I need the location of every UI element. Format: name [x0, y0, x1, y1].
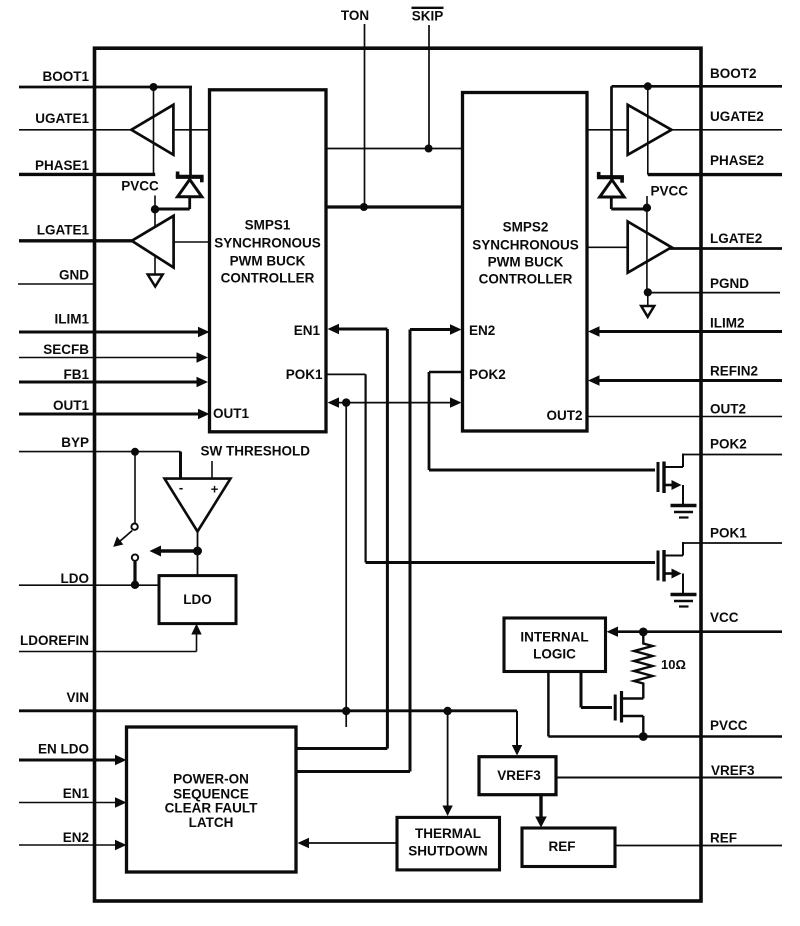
svg-text:REFIN2: REFIN2	[710, 364, 758, 379]
svg-text:POWER-ON: POWER-ON	[173, 772, 249, 787]
wire LGATE1 output	[19, 239, 133, 242]
switch SW1 BYP/LDO selector	[113, 455, 138, 585]
svg-text:PWM BUCK: PWM BUCK	[488, 255, 564, 270]
wire OUT2 pin	[588, 416, 782, 418]
svg-text:OUT1: OUT1	[213, 406, 249, 421]
wire VREF3 pin	[556, 777, 782, 779]
diode D1 bootstrap schottky	[155, 172, 204, 210]
svg-text:POK1: POK1	[710, 526, 747, 541]
svg-text:LOGIC: LOGIC	[533, 646, 576, 661]
wire VIN rail	[19, 709, 517, 712]
svg-text:UGATE2: UGATE2	[710, 109, 764, 124]
wire EN2 return to SMPS2 with arrow	[296, 324, 462, 771]
svg-text:-: -	[179, 480, 183, 495]
block thermal shutdown	[397, 817, 500, 870]
svg-text:SYNCHRONOUS: SYNCHRONOUS	[472, 238, 579, 253]
wire OUT1 with arrow into SMPS1	[19, 409, 210, 419]
wire BYP	[19, 451, 181, 453]
junction BOOT1 node	[150, 83, 158, 91]
junction PGND node	[644, 288, 652, 296]
wire UGATE1 driver input from SMPS1	[173, 129, 209, 131]
junction comparator output node	[193, 547, 202, 556]
svg-text:SMPS2: SMPS2	[503, 220, 549, 235]
wire PVCC node to LGATE1 driver	[154, 209, 156, 228]
ground PGND (arrow ground)	[641, 306, 654, 317]
svg-text:VIN: VIN	[66, 690, 89, 705]
junction VIN / power-on branch	[342, 707, 350, 715]
wire FB1 with arrow into SMPS1	[19, 377, 208, 387]
transistor Q2 POK2 open-drain MOSFET	[658, 454, 683, 505]
svg-text:PHASE2: PHASE2	[710, 153, 764, 168]
svg-text:BOOT1: BOOT1	[42, 69, 89, 84]
svg-text:LDO: LDO	[183, 592, 212, 607]
svg-text:+: +	[211, 482, 219, 497]
wire TON vertical	[364, 24, 366, 207]
wire VIN branch to power-on block and SMPS enable line	[345, 403, 347, 727]
svg-text:GND: GND	[59, 268, 89, 283]
svg-text:SECFB: SECFB	[43, 342, 89, 357]
wire SMPS1-SMPS2 upper interconnect	[326, 148, 462, 150]
junction TON on SMPS bus	[360, 203, 368, 211]
buffer UGATE1 high-side driver	[131, 105, 173, 155]
wire BYP to comparator inverting input	[179, 452, 182, 479]
svg-text:INTERNAL: INTERNAL	[520, 630, 588, 645]
junction PVCC-LGATE1 driver node	[151, 205, 159, 213]
svg-text:CLEAR FAULT: CLEAR FAULT	[165, 801, 258, 816]
wire PGND pin	[648, 292, 780, 294]
svg-text:OUT2: OUT2	[710, 402, 746, 417]
junction VCC / resistor node	[639, 628, 648, 637]
wire UGATE2 driver input from SMPS2	[587, 129, 628, 131]
ground LGATE1 driver (arrow ground)	[148, 275, 163, 287]
wire BOOT2 to diode D2 cathode	[610, 86, 613, 176]
wire LGATE1 driver ground stub	[154, 256, 156, 274]
block SMPS2 synchronous PWM buck controller	[463, 93, 588, 432]
svg-text:SHUTDOWN: SHUTDOWN	[408, 844, 488, 859]
svg-text:SW THRESHOLD: SW THRESHOLD	[201, 444, 311, 459]
wire comparator output	[197, 532, 199, 576]
svg-text:ILIM1: ILIM1	[54, 312, 89, 327]
svg-text:EN2: EN2	[469, 323, 495, 338]
svg-text:POK2: POK2	[710, 437, 747, 452]
wire SKIP vertical	[428, 25, 430, 149]
ground Q1 source	[671, 595, 697, 607]
wire SW THRESHOLD stub to comparator	[211, 461, 213, 479]
wire BOOT1	[19, 86, 192, 89]
wire BOOT2 node down to PHASE2 (through driver)	[647, 86, 649, 174]
wire EN LDO with arrow into power-on block	[19, 755, 127, 765]
wire POK2 from SMPS2 to Q2 gate	[429, 372, 655, 470]
buffer LGATE2 low-side driver	[628, 222, 672, 273]
svg-text:LDOREFIN: LDOREFIN	[20, 633, 89, 648]
svg-text:PWM BUCK: PWM BUCK	[230, 254, 306, 269]
buffer UGATE2 high-side driver	[628, 105, 672, 155]
ground Q2 source	[671, 506, 697, 518]
wire POK1 pin	[683, 542, 782, 544]
junction PVCC node	[639, 732, 648, 741]
svg-text:EN1: EN1	[63, 786, 90, 801]
svg-text:EN LDO: EN LDO	[38, 742, 89, 757]
svg-text:VCC: VCC	[710, 610, 739, 625]
svg-text:OUT2: OUT2	[546, 408, 582, 423]
svg-text:SMPS1: SMPS1	[245, 218, 291, 233]
junction PVCC-LGATE2 driver node	[643, 204, 651, 212]
svg-text:LGATE1: LGATE1	[37, 223, 90, 238]
wire ILIM1 with arrow into SMPS1	[19, 327, 210, 337]
wire LGATE2 driver input from SMPS2	[587, 246, 628, 248]
wire LGATE1 driver input from SMPS1	[174, 241, 210, 243]
wire SMPS1-SMPS2 TON bus	[326, 205, 462, 208]
wire POK1 from SMPS1 to Q1 gate	[326, 374, 655, 562]
wire BOOT1 to diode D1 cathode	[189, 87, 192, 177]
wire GND	[18, 283, 96, 285]
block LDO regulator	[159, 576, 236, 624]
block power-on sequence / clear fault latch	[127, 727, 297, 872]
svg-text:PHASE1: PHASE1	[35, 158, 90, 173]
block VREF3	[479, 757, 556, 795]
wire comparator output arrow to switch	[150, 546, 198, 557]
svg-text:VREF3: VREF3	[711, 763, 755, 778]
block internal logic	[504, 618, 606, 672]
junction BOOT2 node	[644, 82, 652, 90]
svg-text:LGATE2: LGATE2	[710, 231, 762, 246]
wire LDOREFIN with arrow up into LDO	[19, 624, 202, 652]
wire PGND ground stub	[647, 292, 649, 305]
wire VIN to VREF3 with arrow	[512, 711, 522, 756]
svg-text:TON: TON	[341, 8, 369, 23]
junction VIN / thermal branch	[443, 707, 451, 715]
buffer LGATE1 low-side driver	[132, 216, 174, 268]
wire REFIN2 with arrow into SMPS2	[588, 375, 782, 385]
svg-text:LDO: LDO	[61, 571, 90, 586]
junction LDO line node	[131, 581, 139, 589]
wire VREF3 to REF with arrow	[535, 795, 547, 828]
wire PHASE1	[19, 173, 155, 176]
wire thermal shutdown to power-on latch with arrow	[298, 838, 398, 848]
wire BOOT2	[612, 85, 783, 88]
svg-text:ILIM2: ILIM2	[710, 315, 745, 330]
wire POK2 pin	[683, 454, 782, 456]
svg-text:PVCC: PVCC	[710, 718, 748, 733]
wire UGATE1 output	[19, 129, 133, 131]
svg-text:REF: REF	[549, 839, 576, 854]
svg-text:SEQUENCE: SEQUENCE	[173, 786, 249, 801]
svg-text:EN2: EN2	[63, 830, 89, 845]
wire VCC with arrow into internal logic	[607, 627, 783, 637]
svg-text:VREF3: VREF3	[497, 768, 541, 783]
svg-text:OUT1: OUT1	[53, 398, 89, 413]
svg-text:PVCC: PVCC	[651, 184, 689, 199]
wire ILIM2 with arrow into SMPS2	[588, 326, 782, 336]
diode D2 bootstrap schottky	[597, 172, 647, 209]
wire VIN to thermal shutdown with arrow	[442, 711, 452, 816]
wire LGATE2 output	[670, 247, 782, 250]
svg-text:UGATE1: UGATE1	[35, 111, 89, 126]
wire internal logic to PVCC rail	[548, 672, 782, 737]
wire EN1 with arrow into power-on block	[19, 797, 127, 807]
svg-text:BYP: BYP	[61, 435, 89, 450]
svg-text:PVCC: PVCC	[121, 179, 159, 194]
wire fault line to both SMPS blocks	[328, 397, 462, 407]
svg-text:CONTROLLER: CONTROLLER	[479, 272, 573, 287]
block SMPS1 synchronous PWM buck controller	[210, 90, 327, 432]
wire PVCC stub left	[154, 196, 156, 210]
wire BOOT1 node down to PHASE1 (through driver)	[153, 87, 155, 174]
pin SKIP label (active low)	[412, 8, 444, 24]
transistor Q1 POK1 open-drain MOSFET	[658, 542, 683, 593]
svg-text:REF: REF	[710, 831, 737, 846]
wire PHASE2	[648, 173, 782, 176]
wire REF pin	[615, 845, 782, 847]
wire UGATE2 output	[670, 129, 782, 131]
IC outer boundary box	[95, 48, 702, 901]
op-amp U1 switch-threshold comparator	[165, 479, 231, 532]
block REF	[522, 828, 615, 867]
svg-text:POK2: POK2	[469, 367, 506, 382]
junction SKIP on inter-SMPS line	[425, 145, 433, 153]
svg-text:CONTROLLER: CONTROLLER	[221, 271, 315, 286]
wire PVCC stub right	[646, 196, 648, 208]
resistor R1 10 ohm	[634, 632, 653, 699]
junction BYP node	[131, 448, 139, 456]
svg-text:EN1: EN1	[294, 323, 321, 338]
svg-text:10Ω: 10Ω	[661, 657, 686, 672]
svg-text:THERMAL: THERMAL	[415, 826, 481, 841]
svg-text:SYNCHRONOUS: SYNCHRONOUS	[214, 236, 321, 251]
wire LDO	[19, 584, 159, 586]
wire EN2 with arrow into power-on block	[19, 840, 127, 850]
wire EN1 return to SMPS1 with arrow	[296, 324, 387, 749]
transistor Q3 PVCC switch MOSFET	[581, 672, 643, 737]
svg-text:POK1: POK1	[286, 367, 323, 382]
wire SECFB with arrow into SMPS1	[19, 352, 208, 362]
svg-text:SKIP: SKIP	[412, 9, 444, 24]
svg-text:LATCH: LATCH	[189, 815, 234, 830]
svg-text:PGND: PGND	[710, 276, 749, 291]
wire PVCC node through LGATE2 driver to PGND	[646, 208, 648, 292]
svg-text:FB1: FB1	[63, 367, 89, 382]
junction fault line / VIN branch	[342, 398, 350, 406]
svg-text:BOOT2: BOOT2	[710, 66, 757, 81]
